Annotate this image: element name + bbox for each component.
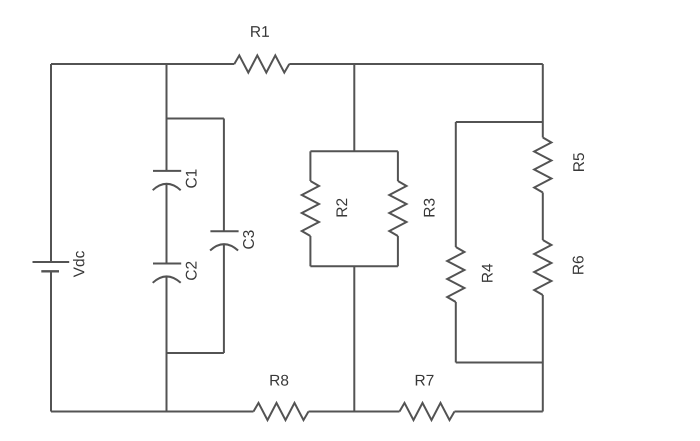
resistor R5 — [534, 138, 551, 193]
wire R2 branch upper — [309, 151, 311, 181]
label R8 — [270, 375, 288, 386]
wire R2R3 box top — [310, 150, 398, 152]
label R6 — [573, 256, 584, 274]
resistor R2 — [302, 181, 319, 236]
capacitor C2 — [153, 264, 182, 283]
label R7 — [416, 375, 434, 386]
wire bottom left segment — [51, 411, 254, 413]
wire R2R3 box bottom — [310, 265, 398, 267]
wire C-branch upper — [166, 64, 168, 171]
capacitor C3 — [210, 231, 239, 250]
wire bottom right segment — [455, 411, 543, 413]
wire top left segment — [51, 63, 234, 65]
wire left vertical upper — [50, 64, 52, 262]
resistor R7 — [400, 403, 455, 420]
label R2 — [336, 199, 347, 217]
wire R4 link bottom — [456, 362, 543, 364]
label Vdc — [73, 251, 84, 277]
label R4 — [482, 264, 493, 282]
wire R4 branch upper — [455, 122, 457, 247]
wire R3 branch lower — [397, 236, 399, 266]
wire C3-branch upper — [223, 119, 225, 232]
wire link C-branch to C3 top — [167, 118, 224, 120]
resistor R8 — [254, 403, 309, 420]
battery Vdc — [33, 262, 70, 271]
wire R3 branch upper — [397, 151, 399, 181]
wire middle vertical upper — [353, 64, 355, 151]
label C2 — [186, 262, 197, 280]
wire C3-branch lower — [223, 244, 225, 353]
wire bottom middle segment — [309, 411, 400, 413]
wire right vertical lower — [542, 295, 544, 412]
label R1 — [251, 26, 269, 37]
resistor R6 — [534, 240, 551, 295]
wire left vertical lower — [50, 271, 52, 411]
label C1 — [186, 169, 197, 187]
resistor R4 — [447, 247, 464, 302]
label R3 — [424, 199, 435, 217]
capacitor C1 — [153, 171, 182, 190]
resistor R3 — [389, 181, 406, 236]
wire link C-branch to C3 bottom — [167, 352, 224, 354]
wire C-branch lower — [166, 277, 168, 412]
wire right vertical upper — [542, 64, 544, 138]
wire R4 branch lower — [455, 302, 457, 363]
wire top right segment — [289, 63, 543, 65]
wire C-branch middle — [166, 184, 168, 264]
label C3 — [243, 230, 254, 248]
wire R4 link top — [456, 121, 543, 123]
wire right vertical middle — [542, 193, 544, 241]
label R5 — [573, 153, 584, 171]
wire R2 branch lower — [309, 236, 311, 266]
resistor R1 — [234, 55, 289, 72]
wire middle vertical lower — [353, 266, 355, 411]
